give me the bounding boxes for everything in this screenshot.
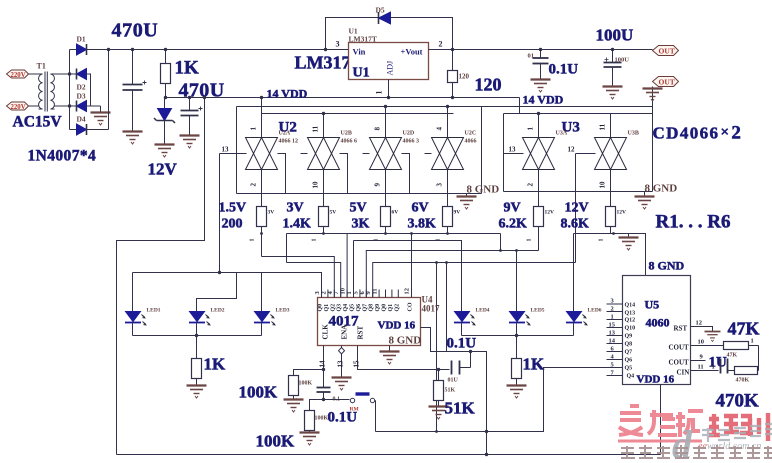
svg-text:5V: 5V [350,201,367,216]
svg-text:Q9: Q9 [625,334,633,340]
svg-text:Q10: Q10 [625,326,636,332]
resistor 100K first [289,376,313,401]
svg-text:100K: 100K [239,383,279,402]
wire U2A pin13 control [220,146,247,273]
ground 1K right [507,386,527,399]
ground RST U5 [705,332,721,342]
svg-text:120: 120 [459,73,470,81]
svg-text:U2C: U2C [465,131,477,137]
svg-text:470U: 470U [112,20,159,42]
watermark subtitle RF antenna experts [621,445,772,459]
svg-text:12: 12 [568,146,576,154]
counter U4 4017 box [318,298,422,347]
wire rail A left [109,49,349,51]
wire IN1 to transformer [29,73,39,75]
svg-text:Q3: Q3 [337,304,343,312]
svg-text:COUT: COUT [669,359,690,367]
ground C2 [180,136,200,149]
svg-text:6V: 6V [392,210,399,216]
wire rail A right of U1 [429,49,653,51]
svg-text:8 GND: 8 GND [467,184,500,196]
wire U2 box bottom [237,193,482,195]
svg-text:CIN: CIN [677,369,690,377]
resistor R3 3K [347,201,398,298]
svg-text:RST: RST [674,325,688,333]
wire maze bus y262 left [287,263,341,298]
capacitor 1U osc [721,359,735,374]
svg-text:2: 2 [439,40,443,49]
resistor 470K [735,367,759,384]
svg-text:U2B: U2B [341,131,352,137]
switch U3A [523,112,568,207]
pin names Q0-Q9 U4 [318,302,414,311]
transformer T1 [37,62,55,112]
ground zener [155,145,175,158]
svg-text:1: 1 [527,127,535,131]
svg-text:1: 1 [375,91,384,95]
svg-text:100K: 100K [299,381,313,387]
pin stubs U5 left [607,304,623,376]
wire U3 right edge shared [652,107,654,192]
diode D1 [70,35,109,56]
svg-text:CD4066×2: CD4066×2 [653,123,743,144]
diamond ENA pin 13 [337,346,345,378]
svg-text:8.6K: 8.6K [561,217,590,232]
resistor 47K [724,338,759,359]
svg-text:2: 2 [611,306,614,313]
svg-text:9V: 9V [504,201,521,216]
terminal IN2 220V [7,102,29,111]
capacitor 100U [604,48,630,87]
svg-text:eeworld.com.cn: eeworld.com.cn [698,441,761,452]
svg-text:Q4: Q4 [343,304,349,312]
svg-text:15: 15 [609,322,616,329]
wire secondary top [55,73,77,75]
resistor R4 3.8K [408,201,461,242]
pin RST U5 [674,320,713,333]
ground 100K first [284,400,304,413]
svg-text:2: 2 [250,183,258,187]
svg-text:3V: 3V [268,210,275,216]
svg-text:LM317: LM317 [295,53,351,73]
svg-text:D3: D3 [77,92,86,101]
wire bridge center tap to ground [100,106,102,113]
svg-text:13: 13 [609,330,616,337]
svg-text:Q1: Q1 [324,304,330,312]
svg-text:3.8K: 3.8K [408,217,437,232]
svg-text:ENA: ENA [341,325,349,340]
svg-text:220V: 220V [11,72,26,79]
wire U2D in [363,154,410,194]
svg-text:1: 1 [312,239,318,242]
svg-text:2: 2 [527,183,535,187]
wire maze CO vertical [411,234,413,298]
pin CIN U5 [677,364,719,377]
svg-text:U3B: U3B [628,131,639,137]
svg-text:47K: 47K [727,353,738,359]
svg-text:11: 11 [599,123,607,130]
wire LED2 jog [197,273,237,312]
svg-text:9V: 9V [454,210,461,216]
svg-text:3: 3 [336,40,340,49]
svg-text:Q4: Q4 [627,374,635,380]
wire maze LED6 vertical [573,234,575,312]
svg-text:Q5: Q5 [625,366,633,372]
diode D5 bypass wire [324,6,453,52]
capacitor C1 470U [123,48,147,132]
diode D3 [77,92,87,112]
wire maze LED5 drop [499,234,518,312]
svg-text:14: 14 [319,360,327,368]
svg-text:6.2K: 6.2K [499,217,528,232]
svg-text:100U: 100U [615,57,630,64]
svg-text:Q7: Q7 [362,304,368,312]
wire maze bus y256 [262,257,335,298]
svg-text:Q8: Q8 [625,342,633,348]
switch U2C [432,105,477,207]
svg-text:1: 1 [751,338,754,345]
svg-text:12: 12 [404,288,411,295]
LED3 [254,308,290,336]
wire right bridge vertical [108,50,110,130]
svg-text:14: 14 [609,338,616,345]
svg-text:470K: 470K [736,378,750,384]
svg-text:Q12: Q12 [625,318,636,324]
svg-text:13: 13 [337,360,345,368]
capacitor 0.1U series [437,350,472,384]
LED2 [189,308,225,336]
wire U2 box right edge [481,107,483,194]
resistor 120 [448,48,470,99]
LED5 [509,308,545,336]
svg-text:1N4007*4: 1N4007*4 [28,148,97,165]
ground 1K left [187,386,207,399]
svg-text:LED5: LED5 [531,308,545,314]
svg-text:OUT: OUT [659,47,675,56]
wire maze hang 446 [445,261,448,351]
svg-text:4066: 4066 [465,139,477,145]
oscillator U5 4060 box [623,276,691,386]
wire maze bus y233 [287,232,501,235]
wire U3 box bottom [504,191,653,193]
svg-text:Q2: Q2 [330,304,336,312]
svg-text:8 GND: 8 GND [649,259,685,273]
wire LED3 jog [261,273,263,312]
capacitor 0.1 clk [317,388,341,403]
svg-text:COUT: COUT [669,344,690,352]
svg-text:12: 12 [696,320,703,327]
svg-text:4066 3: 4066 3 [403,139,420,145]
pin COUT2 U5 [669,354,706,367]
wire U5 VDD down [660,385,662,455]
ground U2 [457,194,477,210]
wire left bridge vertical [69,50,71,130]
svg-text:0.1U: 0.1U [549,62,579,78]
pin numbers U5 left [609,298,616,377]
node dot U2 VDD tap [260,96,263,99]
svg-text:0.1U: 0.1U [447,336,477,352]
ground 100K second [300,433,320,446]
wire U3 box left edge [503,114,505,192]
wire button to U5 row [376,368,607,434]
svg-text:120: 120 [475,75,502,95]
svg-text:4: 4 [436,127,444,131]
svg-text:10: 10 [312,181,320,189]
svg-text:Q14: Q14 [625,303,636,309]
svg-text:1K: 1K [523,355,546,374]
svg-text:14 VDD: 14 VDD [523,93,564,107]
capacitor C2 470U [181,96,203,136]
svg-text:VDD 16: VDD 16 [637,374,675,386]
svg-text:U3A: U3A [556,131,568,137]
ground U3 [635,192,655,210]
svg-text:11: 11 [698,364,704,371]
svg-text:1: 1 [599,239,605,242]
svg-text:4066 6: 4066 6 [341,139,358,145]
wire R6 node to U5 gnd [574,232,646,275]
wire U3B pin12 control [568,146,596,263]
svg-text:OUT: OUT [659,78,675,87]
label U4 [422,295,441,314]
terminal OUT1 [653,46,679,56]
wire VDD bypass run [421,328,489,457]
svg-text:220V: 220V [11,104,26,111]
watermark yiditui training logo [618,406,768,441]
wire U2C in [425,153,432,155]
wire secondary bottom [55,105,77,107]
ground C1 [123,132,143,145]
wire U2 box left edge [236,107,238,194]
svg-text:47K: 47K [728,319,760,339]
zener diode 12V [154,97,175,144]
capacitor 0.1U out [528,48,549,80]
pin stubs above U4 [322,290,412,298]
svg-text:Q8: Q8 [369,304,375,312]
svg-text:3K: 3K [352,217,370,232]
wire U3 box top [504,113,653,115]
svg-text:100K: 100K [256,432,296,451]
LED1 [125,308,161,336]
wire maze LED4 line y240 [354,241,462,312]
svg-text:1: 1 [527,239,533,242]
svg-text:U5: U5 [645,298,660,312]
svg-text:VDD 16: VDD 16 [378,320,416,332]
svg-text:d: d [672,422,693,463]
resistor R2 1.4K [283,201,337,263]
svg-text:D1: D1 [77,35,86,44]
wire IN2 to transformer [29,105,39,107]
svg-text:LED3: LED3 [276,308,290,314]
LED6 [566,308,602,336]
svg-text:12V: 12V [545,210,555,216]
svg-text:LED4: LED4 [476,308,490,314]
svg-text:12V: 12V [617,210,627,216]
svg-text:CO: CO [408,302,414,311]
svg-text:01U: 01U [448,378,459,384]
svg-text:4066 12: 4066 12 [279,139,299,145]
diode D2 [77,69,87,92]
svg-text:100U: 100U [596,26,634,45]
svg-text:14 VDD: 14 VDD [267,87,308,101]
resistor R 1K top [161,48,200,98]
node dot sec bottom [68,104,71,107]
svg-text:3V: 3V [287,201,304,216]
svg-text:8 GND: 8 GND [645,183,678,195]
node dot rail B 1K [164,96,167,99]
svg-text:Q5: Q5 [350,304,356,312]
wire LED right rail [462,334,574,337]
resistor R5 6.2K [499,201,555,251]
ground 100U [603,87,623,100]
svg-text:12V: 12V [148,160,178,179]
svg-text:Q0: Q0 [318,304,324,312]
switch U3B [595,114,639,207]
ground 51K [429,407,449,420]
svg-text:1K: 1K [175,58,200,79]
pin number labels above U4 [314,288,411,295]
wire rail B jog to U3 [519,98,521,114]
wire CLK pin 14 [294,346,327,388]
terminal IN1 220V [7,70,29,79]
resistor R1 200 [219,201,275,257]
terminal OUT2 [653,77,679,87]
wire long vertical from rail B [117,96,207,455]
node dot bridge out [107,48,110,51]
svg-text:9: 9 [374,183,382,187]
wire D2-D3 join [87,74,101,106]
resistor 100K second [305,400,329,433]
svg-text:10: 10 [698,339,705,346]
svg-text:13: 13 [222,146,230,154]
svg-text:1.5V: 1.5V [219,201,247,216]
wire osc right vertical [758,346,760,371]
node dot sec top [68,72,71,75]
svg-text:U2D: U2D [403,131,415,137]
svg-text:4017: 4017 [422,304,441,314]
svg-text:R1. . . R6: R1. . . R6 [656,212,731,233]
push button RST [324,394,376,432]
svg-text:3: 3 [436,183,444,187]
pin COUT1 U5 [669,339,724,352]
switch U2D [370,105,420,207]
svg-text:8 GND: 8 GND [389,335,422,347]
svg-text:1: 1 [712,364,715,371]
resistor 51K [434,370,456,407]
ground 0.1U out [531,80,551,93]
wire LED left rail [133,334,262,337]
ground U4 [380,346,400,365]
svg-text:15: 15 [353,360,361,368]
wire maze bus y262 [373,263,576,298]
LED4 [454,308,490,336]
switch U2B [308,112,358,207]
switch U2A [246,114,299,207]
svg-text:12V: 12V [565,201,589,216]
svg-text:Q0: Q0 [382,304,388,312]
wire RST pin 15 [353,346,439,370]
svg-text:200: 200 [222,217,243,232]
svg-text:+Vout: +Vout [401,47,423,57]
ground ENA [332,378,352,391]
svg-text:D4: D4 [77,115,86,124]
wire maze long vertical a [435,261,438,433]
ground bridge [91,113,111,126]
svg-text:RST: RST [357,326,365,340]
wire U2 box top [237,106,653,108]
resistor 1K right LED [512,336,546,386]
pin 1 ADJ wire [375,80,391,100]
svg-text:CLK: CLK [322,324,330,340]
svg-text:Q13: Q13 [625,311,636,317]
svg-text:8: 8 [374,127,382,131]
svg-text:AC15V: AC15V [13,114,63,131]
svg-text:Q9: Q9 [375,304,381,312]
diode D4 [70,115,109,136]
ground R6 node [619,234,639,251]
wire bottom rail [117,454,661,456]
svg-text:Q6: Q6 [356,304,362,312]
svg-text:Q1: Q1 [388,304,394,312]
op-amp U1 LM317 box [349,27,429,81]
svg-text:RM: RM [350,407,360,413]
svg-text:470U: 470U [179,80,225,102]
svg-text:100K: 100K [315,416,329,422]
svg-text:51K: 51K [445,388,456,394]
wire U3A pin13 control [504,146,524,154]
svg-text:D5: D5 [376,6,385,15]
wire maze LED line left y272 [133,271,322,312]
ground OUT2 [643,89,663,102]
svg-text:1K: 1K [204,355,227,374]
svg-text:11: 11 [312,125,320,132]
svg-text:1: 1 [250,127,258,131]
svg-text:T1: T1 [37,62,46,71]
svg-text:1: 1 [611,314,614,321]
svg-text:U1: U1 [353,66,370,81]
resistor R6 8.6K [561,201,627,242]
resistor 1K left LED [192,336,227,386]
svg-text:U2A: U2A [279,131,291,137]
svg-text:LED1: LED1 [147,308,161,314]
svg-text:1: 1 [250,239,256,242]
svg-text:13: 13 [509,146,517,154]
svg-text:LED6: LED6 [588,308,602,314]
wire maze bus y250 right [366,251,538,298]
svg-text:470K: 470K [716,391,760,412]
svg-text:D2: D2 [77,83,86,92]
svg-text:6V: 6V [412,201,429,216]
wire rail B [166,97,520,99]
svg-text:ADJ: ADJ [386,61,395,76]
eeworld logo [672,422,772,463]
svg-text:01: 01 [528,53,535,60]
wire OUT2 down [652,87,654,107]
pin rows U5 left [625,303,636,380]
svg-text:51K: 51K [445,399,476,418]
svg-text:4060: 4060 [646,316,670,330]
svg-text:LED2: LED2 [211,308,225,314]
svg-text:5V: 5V [330,210,337,216]
svg-text:Q6: Q6 [625,358,633,364]
wire U2 inner VDD line [262,98,454,114]
svg-text:Vin: Vin [353,47,366,57]
wire U2A out [278,154,286,194]
svg-text:Q2: Q2 [394,304,400,312]
svg-text:10: 10 [599,181,607,189]
svg-text:Q7: Q7 [625,350,633,356]
wire U2B in [301,154,348,194]
svg-text:1.4K: 1.4K [283,217,312,232]
